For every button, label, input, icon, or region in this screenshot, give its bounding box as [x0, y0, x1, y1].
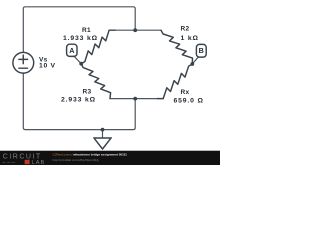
svg-text:A: A — [69, 46, 74, 55]
svg-text:B: B — [199, 46, 204, 55]
svg-text:R2: R2 — [181, 26, 190, 33]
svg-text:∼∼∼: ∼∼∼ — [2, 160, 16, 165]
svg-text:1.933 kΩ: 1.933 kΩ — [63, 35, 98, 42]
svg-text:LAB: LAB — [32, 160, 46, 165]
svg-text:R3: R3 — [83, 89, 92, 96]
svg-text:R1: R1 — [82, 27, 91, 34]
svg-text:1 kΩ: 1 kΩ — [181, 35, 199, 42]
svg-text:CJRami.yons / wheatstone bridg: CJRami.yons / wheatstone bridge assignme… — [53, 153, 128, 157]
svg-text:659.0 Ω: 659.0 Ω — [174, 98, 204, 105]
svg-text:http://circuitlab.com/c/8uy53p: http://circuitlab.com/c/8uy53pzm6kjy — [53, 158, 100, 162]
svg-text:10 V: 10 V — [39, 63, 56, 70]
svg-text:2.933 kΩ: 2.933 kΩ — [61, 97, 96, 104]
svg-text:Rx: Rx — [181, 89, 190, 96]
